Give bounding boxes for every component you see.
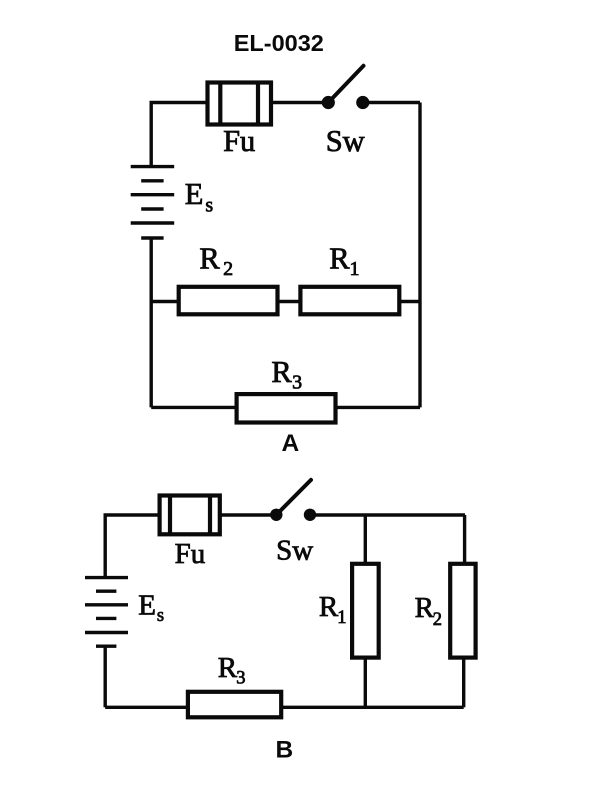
resistor R1 (B): [352, 515, 379, 707]
resistor R2 (A): [179, 287, 278, 315]
wire switch to top-right corner A: [363, 101, 420, 104]
svg-text:Sw: Sw: [276, 535, 313, 567]
svg-text:R: R: [271, 355, 292, 389]
svg-text:Fu: Fu: [223, 124, 255, 158]
label R3 (B): [218, 652, 246, 689]
wire bottom-left A: [151, 406, 236, 409]
wire right vertical A: [418, 103, 421, 408]
svg-text:2: 2: [433, 610, 442, 630]
label R2 (B): [415, 592, 442, 630]
wire top-left corner B: [105, 515, 159, 579]
svg-text:A: A: [281, 430, 299, 457]
wire bottom-right A: [336, 406, 421, 409]
svg-text:Sw: Sw: [326, 124, 365, 158]
label R2 (A): [199, 241, 233, 280]
label Es (A): [185, 177, 214, 216]
switch Sw (B): [270, 480, 316, 521]
svg-text:EL-0032: EL-0032: [234, 30, 324, 56]
wire left vertical B lower: [103, 646, 106, 707]
wire R2 to R1: [278, 300, 301, 303]
switch Sw (A): [322, 66, 370, 109]
wire R1 to right vertical: [399, 300, 420, 303]
label R1 (A): [329, 241, 359, 280]
label Es (B): [138, 589, 164, 626]
svg-text:Fu: Fu: [175, 538, 206, 570]
wire bottom B to right corner: [281, 706, 464, 709]
svg-text:3: 3: [236, 668, 245, 688]
svg-text:R: R: [199, 241, 220, 275]
battery Es (A): [131, 167, 175, 238]
wire top-left corner A: [151, 103, 207, 169]
fuse Fu (A): [208, 83, 272, 125]
wire fuse to switch A: [271, 101, 324, 104]
resistor R1 (A): [300, 287, 399, 315]
svg-text:s: s: [157, 606, 164, 626]
svg-text:R: R: [218, 652, 238, 684]
fuse Fu (B): [160, 496, 220, 535]
wire switch to top-right corner B: [310, 513, 465, 516]
svg-text:B: B: [275, 737, 293, 764]
resistor R3 (A): [237, 394, 336, 422]
svg-text:1: 1: [350, 258, 360, 280]
svg-text:R: R: [319, 591, 339, 623]
battery Es (B): [85, 578, 128, 647]
label R1 (B): [319, 591, 347, 628]
wire bottom-left B: [105, 706, 188, 709]
svg-text:E: E: [138, 589, 156, 621]
wire left vertical A lower: [149, 238, 152, 407]
resistor R2 (B): [450, 515, 475, 707]
svg-text:R: R: [329, 241, 350, 275]
label R3 (A): [271, 355, 302, 394]
svg-text:s: s: [205, 195, 213, 217]
wire to R2 left: [151, 300, 179, 303]
svg-text:E: E: [185, 177, 204, 211]
svg-text:1: 1: [337, 608, 346, 628]
svg-text:R: R: [415, 592, 435, 624]
svg-text:2: 2: [223, 258, 233, 280]
svg-text:3: 3: [292, 371, 302, 393]
resistor R3 (B): [188, 692, 281, 718]
wire fuse to switch B: [220, 513, 272, 516]
